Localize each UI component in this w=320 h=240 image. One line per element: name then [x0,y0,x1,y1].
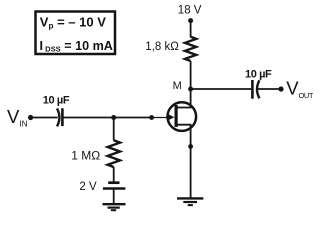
capacitor C1 curved plate [57,108,59,126]
ground right bar3 [188,204,193,206]
capacitor C1 straight plate [61,108,64,126]
wire Vin to C1 [31,117,58,119]
svg-text:18 V: 18 V [178,4,202,16]
ground left bar1 [103,203,126,205]
resistor RD 1,8 kOhm [185,37,196,61]
Vin node dot [28,115,33,120]
wire junction down to RG [113,118,115,141]
gate pin dot [149,115,154,120]
info box [36,12,116,55]
capacitor C2 straight plate [251,80,254,99]
wire C1 to gate [62,117,151,119]
svg-text:2 V: 2 V [79,181,97,193]
junction dot [111,115,116,120]
svg-text:M: M [173,80,182,92]
svg-text:VIN: VIN [7,106,28,129]
wire RD to node M [190,61,192,89]
svg-text:1 MΩ: 1 MΩ [71,148,100,162]
transistor Q1 channel bar [175,105,178,127]
capacitor C2 curved plate [257,80,259,98]
wire supply to RD [190,21,192,37]
node M dot [188,87,193,92]
source pin dot [188,144,193,149]
ground right bar2 [183,201,197,203]
transistor Q1 gate arrow [168,114,175,121]
gate lead thin [152,117,169,119]
svg-text:10 µF: 10 µF [245,68,272,80]
transistor Q1 drain lead [176,89,191,108]
resistor RG 1 MOhm [108,140,120,167]
svg-text:VOUT: VOUT [286,78,313,100]
ground left bar2 [108,207,120,209]
wire RG to battery [113,167,115,182]
transistor Q1 source lead [176,125,191,198]
transistor Q1 circle [168,102,197,131]
wire battery to ground [113,189,115,204]
wire M to C2 [191,88,252,90]
supply node dot [188,18,193,23]
Vout node dot [278,86,283,91]
ground left bar3 [111,209,116,211]
wire C2 to Vout [258,88,282,90]
ground right bar1 [177,197,203,199]
battery 2V short bar [108,181,119,184]
svg-text:10 µF: 10 µF [43,94,70,106]
battery 2V long bar [103,187,126,189]
svg-text:1,8 kΩ: 1,8 kΩ [145,41,179,53]
